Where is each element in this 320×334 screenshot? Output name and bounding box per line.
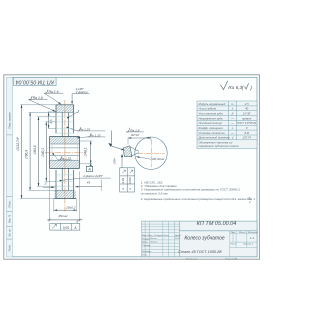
svg-text:107,74: 107,74 bbox=[242, 136, 251, 140]
left extension lines bbox=[20, 105, 56, 199]
paper sheet bbox=[4, 75, 260, 259]
svg-text:Пров.: Пров. bbox=[142, 242, 148, 244]
roughness flag Ra1.25 (hub top) bbox=[88, 133, 92, 137]
svg-text:—: — bbox=[230, 131, 234, 135]
note 1deg leader bbox=[43, 186, 55, 188]
svg-text:Сталь 45 ГОСТ 1050-88: Сталь 45 ГОСТ 1050-88 bbox=[178, 250, 222, 254]
roughness flag Ra1.25 (web) bbox=[77, 127, 81, 131]
svg-text:Степень точности: Степень точности bbox=[199, 131, 226, 135]
svg-text:Колесо зубчатое: Колесо зубчатое bbox=[184, 236, 225, 242]
svg-text:Ra 6,3: Ra 6,3 bbox=[228, 85, 242, 90]
leader R0.3 bbox=[136, 157, 151, 160]
svg-text:Масштаб: Масштаб bbox=[248, 232, 259, 234]
chamfer note 1x45 bbox=[72, 93, 89, 95]
svg-text:R0,3max: R0,3max bbox=[152, 157, 165, 161]
datum A bbox=[89, 164, 92, 167]
roughness flag Ra1.6 (a) bbox=[44, 90, 48, 94]
svg-text:45max: 45max bbox=[58, 214, 68, 218]
web walls upper bbox=[61, 112, 63, 136]
svg-text:Коэфф. смещения: Коэфф. смещения bbox=[199, 126, 224, 130]
dim 25 bbox=[54, 209, 77, 211]
svg-text:остальных 3,8 мм.: остальных 3,8 мм. bbox=[141, 191, 169, 195]
svg-text:Вз. ин: Вз. ин bbox=[8, 229, 12, 237]
svg-text:Т.контр.: Т.контр. bbox=[142, 245, 151, 247]
dim ∅112.74 bbox=[21, 105, 23, 199]
svg-text:Петров: Петров bbox=[150, 241, 157, 243]
svg-text:Угол наклона зуба: Угол наклона зуба bbox=[199, 112, 224, 116]
svg-text:0,016: 0,016 bbox=[128, 177, 132, 184]
svg-text:—: — bbox=[230, 121, 234, 125]
rim top hatch bbox=[56, 105, 74, 113]
left strip boxes bbox=[7, 135, 13, 239]
svg-text:Ra 1,25: Ra 1,25 bbox=[61, 156, 72, 160]
svg-text:4. Неуказанные предельные откл: 4. Неуказанные предельные отклонения раз… bbox=[141, 197, 255, 201]
svg-text:45: 45 bbox=[87, 180, 91, 184]
svg-text:ГОСТ 13755-81: ГОСТ 13755-81 bbox=[237, 121, 257, 125]
svg-text:Направление зуба: Направление зуба bbox=[199, 116, 223, 120]
svg-text:Ra 1,6: Ra 1,6 bbox=[130, 128, 139, 132]
svg-text:А: А bbox=[73, 226, 76, 230]
svg-text:Листов 1: Листов 1 bbox=[242, 244, 254, 246]
svg-text:Утв.: Утв. bbox=[142, 254, 147, 256]
detail centerline vertical bbox=[150, 140, 152, 167]
dim 45 overall bbox=[47, 219, 82, 221]
outer frame bbox=[7, 77, 257, 256]
svg-text:∅112,74*: ∅112,74* bbox=[16, 136, 20, 151]
hub block bbox=[50, 137, 80, 145]
svg-text:Масса: Масса bbox=[239, 232, 246, 234]
svg-text:Дата: Дата bbox=[174, 235, 182, 237]
svg-text:N докум.: N докум. bbox=[154, 234, 163, 237]
centerline vertical (axis of symmetry) bbox=[64, 100, 66, 212]
svg-text:30°±2': 30°±2' bbox=[131, 133, 140, 137]
svg-text:β: β bbox=[231, 112, 234, 116]
svg-text:0,05: 0,05 bbox=[63, 226, 69, 230]
dim ∅64.6 bbox=[38, 117, 40, 186]
general roughness mark top-right bbox=[221, 81, 249, 90]
pale lines rim zone bbox=[56, 116, 74, 118]
svg-text:А: А bbox=[121, 188, 125, 191]
detail centerline horizontal bbox=[138, 152, 165, 154]
dim ∅40.1 bbox=[45, 122, 47, 181]
svg-text:0,04: 0,04 bbox=[121, 178, 125, 184]
svg-text:Лист: Лист bbox=[229, 244, 236, 246]
svg-text:1:1: 1:1 bbox=[250, 236, 255, 240]
svg-text:): ) bbox=[249, 85, 252, 91]
svg-text:40: 40 bbox=[245, 107, 249, 111]
svg-text:Перв. примен.: Перв. примен. bbox=[8, 111, 12, 129]
technical requirements text bbox=[140, 180, 255, 204]
svg-text:пряжённого зубчатого колеса: пряжённого зубчатого колеса bbox=[199, 144, 239, 148]
svg-text:КП ТМ 05.00.04: КП ТМ 05.00.04 bbox=[16, 78, 54, 84]
svg-text:КП ТМ 05.00.04: КП ТМ 05.00.04 bbox=[197, 221, 237, 227]
roughness flag Ra1.25 (bore) bbox=[58, 156, 62, 160]
roughness flag Ra1.6 (b) bbox=[29, 96, 33, 100]
tooth depth dim 4,5 bbox=[48, 111, 56, 113]
svg-text:Делительный диаметр: Делительный диаметр bbox=[198, 136, 231, 140]
svg-text:∅64,6: ∅64,6 bbox=[33, 145, 37, 154]
svg-text:Н.контр.: Н.контр. bbox=[142, 251, 152, 253]
centerline horizontal (gear axis) bbox=[45, 152, 84, 154]
svg-text:IT: IT bbox=[248, 196, 251, 200]
gear parameter table top-right bbox=[197, 101, 257, 149]
dim above detail bbox=[128, 137, 151, 139]
svg-text:Число зубьев: Число зубьев bbox=[199, 107, 217, 111]
svg-text:Лит.: Лит. bbox=[229, 232, 236, 234]
detail view circle bbox=[135, 137, 167, 169]
svg-text:правое: правое bbox=[242, 116, 252, 120]
svg-text:2 фаски 2х45°: 2 фаски 2х45° bbox=[82, 174, 104, 178]
svg-text:Копировал: Копировал bbox=[186, 258, 198, 260]
svg-text:Подп.: Подп. bbox=[163, 234, 169, 237]
roughness flag detail bbox=[126, 128, 130, 132]
svg-text:А: А bbox=[128, 188, 132, 191]
svg-text:Исходный контур: Исходный контур bbox=[199, 121, 223, 125]
tolerance frame bottom bbox=[76, 220, 78, 224]
small flag on rim right bbox=[76, 110, 79, 113]
svg-text:—: — bbox=[230, 116, 234, 120]
dia dim at detail left bbox=[111, 131, 113, 147]
tolerance frames stack bbox=[120, 168, 135, 192]
dim 45 lower right bbox=[75, 186, 102, 188]
svg-text:Формат А4: Формат А4 bbox=[225, 257, 238, 260]
svg-text:Подп.: Подп. bbox=[8, 200, 12, 207]
left strip vertical labels bbox=[8, 111, 12, 251]
svg-text:Иванов: Иванов bbox=[150, 238, 157, 240]
dim ∅96.9 bbox=[29, 112, 31, 190]
svg-text:Инв. N: Инв. N bbox=[8, 215, 12, 223]
designation box top-left (rotated 180) bbox=[13, 77, 56, 85]
svg-text:2 фаски: 2 фаски bbox=[75, 90, 88, 94]
svg-text:12.05: 12.05 bbox=[175, 238, 181, 240]
svg-text:Подп.: Подп. bbox=[8, 244, 12, 251]
bottom ext lines bbox=[50, 170, 80, 222]
svg-text:∅84: ∅84 bbox=[113, 158, 117, 164]
stack leader bbox=[121, 156, 123, 168]
svg-text:∅96,9: ∅96,9 bbox=[25, 150, 29, 159]
svg-text:Изм Лист: Изм Лист bbox=[142, 235, 152, 237]
svg-text:2,5: 2,5 bbox=[244, 102, 249, 106]
svg-text:А: А bbox=[87, 168, 91, 172]
tooth section hatched bbox=[123, 146, 132, 157]
right dim hub chamfer dia bbox=[80, 141, 93, 164]
left strip wash bbox=[7, 77, 13, 256]
svg-text:21°30': 21°30' bbox=[242, 112, 251, 116]
inner frame left line bbox=[11, 77, 13, 256]
svg-text:∅40,1: ∅40,1 bbox=[41, 148, 45, 157]
svg-text:8-В: 8-В bbox=[245, 131, 249, 135]
svg-text:25±0,2: 25±0,2 bbox=[65, 206, 76, 210]
svg-text:∅48,1: ∅48,1 bbox=[83, 147, 87, 156]
svg-text:Модуль нормальный: Модуль нормальный bbox=[199, 102, 226, 106]
lower rim + web bbox=[54, 170, 76, 199]
svg-text:4,5: 4,5 bbox=[49, 119, 53, 124]
rim top outline bbox=[56, 105, 74, 133]
